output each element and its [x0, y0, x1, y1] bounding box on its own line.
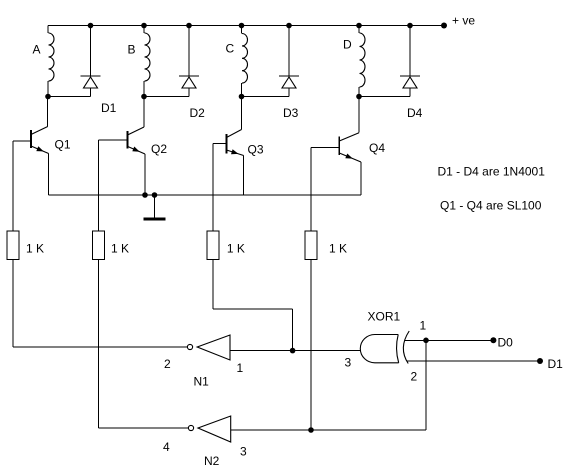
svg-text:N2: N2: [204, 454, 220, 468]
wire N1 input to XOR output pin 3: [230, 350, 361, 352]
node rail junction D3: [286, 23, 292, 29]
node junction D0 line: [423, 338, 429, 344]
svg-text:D1: D1: [101, 101, 117, 115]
resistor R3: [207, 231, 219, 260]
svg-text:D2: D2: [190, 106, 206, 120]
transistor Q1: [13, 97, 49, 196]
wire +ve top rail: [48, 25, 444, 27]
diode D4: [400, 26, 420, 97]
node rail junction D1: [88, 23, 94, 29]
svg-text:2: 2: [411, 370, 418, 384]
transistor Q2: [99, 97, 145, 196]
wire coil B bottom to diode D2 anode: [144, 96, 189, 98]
ground: [144, 195, 166, 219]
node coil D bottom junction: [356, 94, 362, 100]
inductor A (coil): [48, 26, 54, 97]
svg-text:1 K: 1 K: [111, 242, 129, 256]
node D0 terminal dot: [490, 337, 496, 343]
node rail junction coil D: [356, 23, 362, 29]
wire N2 input line to D0 net: [231, 340, 426, 430]
svg-text:C: C: [226, 42, 235, 56]
svg-text:D1: D1: [548, 357, 564, 371]
node rail junction coil B: [141, 23, 147, 29]
inverter N1: [187, 335, 230, 360]
node +ve terminal dot: [441, 23, 447, 29]
wire Q1 base to R1: [12, 141, 14, 231]
svg-text:Q1 - Q4 are SL100: Q1 - Q4 are SL100: [440, 199, 542, 213]
svg-text:1 K: 1 K: [329, 242, 347, 256]
inverter N2: [188, 416, 230, 442]
wire coil C bottom to diode D3 anode: [242, 96, 290, 98]
svg-text:N1: N1: [194, 375, 210, 389]
wire Q2 base to R2: [98, 140, 100, 231]
wire R3 to XOR output net: [213, 260, 293, 351]
node emitter rail junction ground: [152, 192, 158, 198]
wire R1 to N1 output: [13, 260, 187, 348]
svg-text:Q2: Q2: [151, 142, 167, 156]
diode D1: [81, 26, 101, 97]
node D1 terminal dot: [537, 358, 543, 364]
svg-text:1 K: 1 K: [26, 242, 44, 256]
inductor C (coil): [242, 26, 248, 97]
resistor R1: [7, 231, 19, 260]
svg-text:+ ve: + ve: [452, 14, 475, 28]
node rail junction D2: [186, 23, 192, 29]
svg-text:3: 3: [240, 445, 247, 459]
svg-text:A: A: [33, 43, 41, 57]
wire XOR pin 1 to D0 terminal: [405, 339, 493, 341]
svg-text:1: 1: [237, 361, 244, 375]
node coil C bottom junction: [239, 94, 245, 100]
node rail junction coil C: [239, 23, 245, 29]
svg-text:D: D: [343, 38, 352, 52]
transistor Q4: [311, 97, 361, 196]
svg-text:XOR1: XOR1: [368, 310, 401, 324]
wire R4 to N2 input line: [310, 260, 312, 431]
svg-text:B: B: [128, 43, 136, 57]
wire coil A bottom to diode D1 anode: [48, 96, 91, 98]
wire XOR pin 2 to D1 terminal: [407, 360, 540, 362]
svg-text:D3: D3: [283, 106, 299, 120]
diode D3: [279, 26, 299, 97]
node emitter rail junction Q2: [142, 192, 148, 198]
svg-text:3: 3: [345, 356, 352, 370]
node rail junction D4: [407, 23, 413, 29]
wire coil D bottom to diode D4 anode: [359, 96, 410, 98]
svg-text:D1 - D4 are 1N4001: D1 - D4 are 1N4001: [438, 165, 546, 179]
node junction R4 on N2 input line: [308, 427, 314, 433]
inductor B (coil): [144, 26, 150, 97]
resistor R2: [93, 231, 105, 260]
svg-text:D0: D0: [498, 336, 514, 350]
resistor R4: [305, 231, 317, 260]
wire common emitter rail: [49, 194, 361, 196]
node junction R3 on XOR output line: [290, 348, 296, 354]
svg-text:Q4: Q4: [369, 141, 385, 155]
svg-text:2: 2: [164, 357, 171, 371]
node coil B bottom junction: [141, 94, 147, 100]
xor gate XOR1 body: [360, 331, 409, 364]
node coil A bottom junction: [45, 94, 51, 100]
svg-text:D4: D4: [407, 106, 423, 120]
svg-text:4: 4: [163, 440, 170, 454]
svg-text:1: 1: [420, 319, 427, 333]
wire Q4 base to R4: [310, 148, 312, 232]
svg-text:1 K: 1 K: [227, 242, 245, 256]
transistor Q3: [213, 97, 244, 196]
diode D2: [179, 26, 199, 97]
inductor D (coil): [359, 26, 365, 97]
svg-text:Q1: Q1: [55, 138, 71, 152]
wire Q3 base to R3: [212, 144, 214, 232]
wire R2 to N2 output: [99, 260, 189, 429]
svg-text:Q3: Q3: [248, 143, 264, 157]
